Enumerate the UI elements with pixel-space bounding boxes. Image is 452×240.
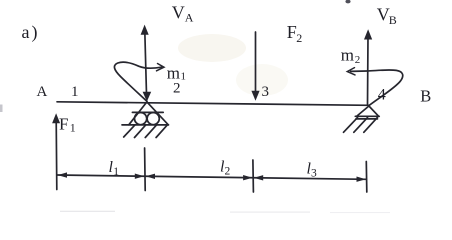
svg-text:m: m — [167, 63, 180, 82]
svg-text:V: V — [172, 3, 185, 23]
svg-text:2: 2 — [355, 54, 361, 66]
svg-text:a: a — [22, 22, 30, 42]
svg-text:F: F — [59, 114, 68, 133]
svg-text:B: B — [389, 13, 397, 27]
svg-text:2: 2 — [296, 31, 302, 45]
svg-text:1: 1 — [181, 70, 187, 82]
svg-text:4: 4 — [378, 87, 386, 104]
svg-text:3: 3 — [262, 84, 270, 100]
svg-text:1: 1 — [70, 120, 76, 134]
svg-text:1: 1 — [71, 84, 79, 100]
svg-text:m: m — [341, 45, 354, 64]
svg-text:3: 3 — [311, 168, 317, 180]
svg-text:2: 2 — [173, 81, 181, 97]
svg-text:B: B — [420, 86, 431, 105]
svg-text:1: 1 — [113, 166, 119, 178]
svg-text:): ) — [32, 22, 38, 43]
svg-text:A: A — [37, 84, 48, 100]
svg-text:2: 2 — [225, 166, 231, 178]
svg-text:A: A — [185, 11, 194, 25]
